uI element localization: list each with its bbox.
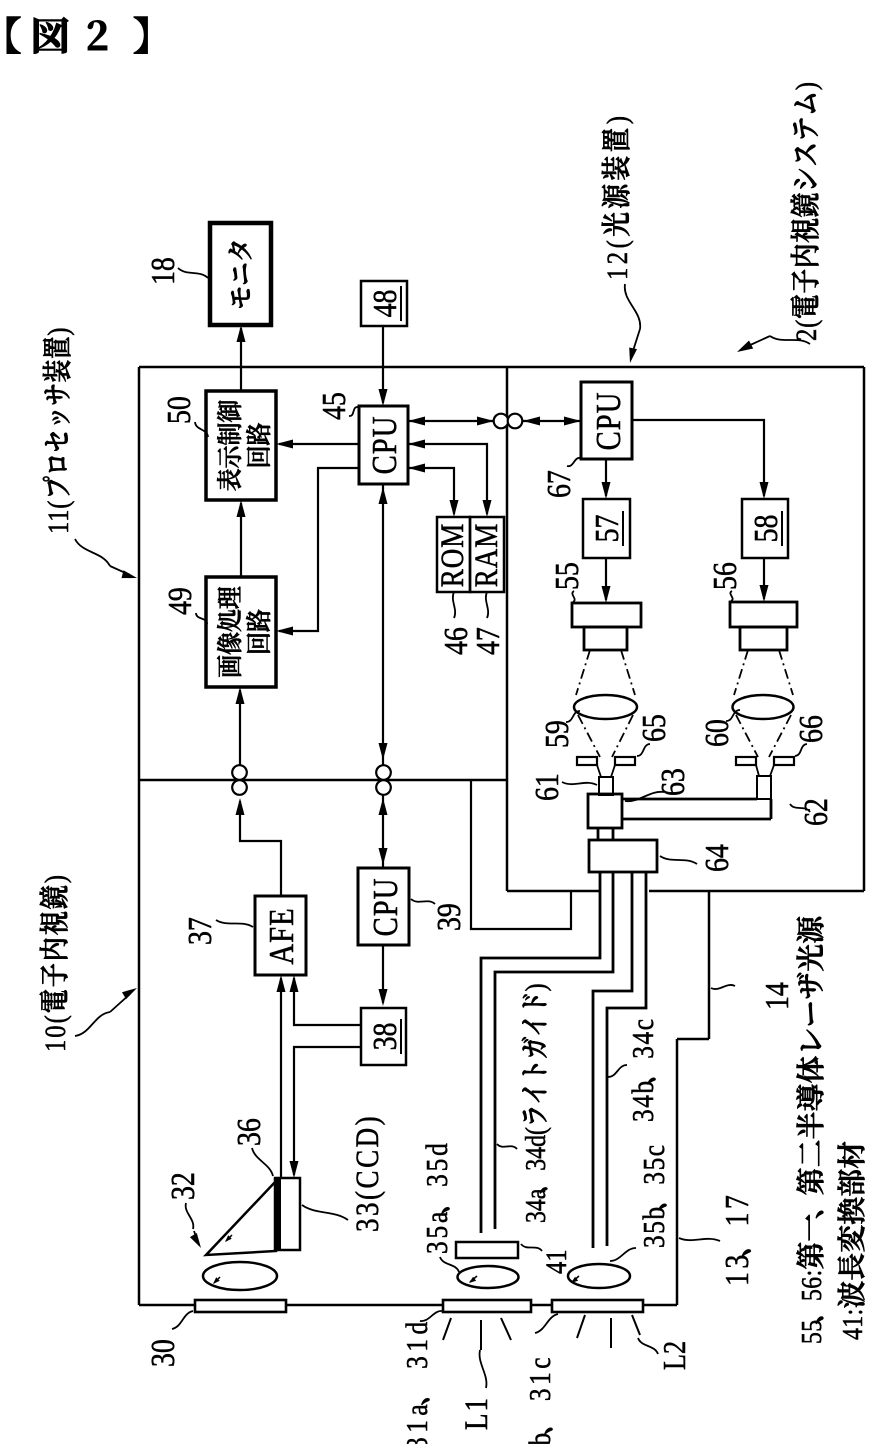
wire: light guide 34b wall from 64	[593, 872, 632, 1248]
svg-text:35d: 35d	[421, 1140, 455, 1187]
wire: light guide 34a outer wall from 64	[481, 872, 600, 1233]
svg-text:49: 49	[160, 587, 198, 615]
wire: light guide 34c wall from 64	[607, 872, 646, 1246]
svg-text:31a: 31a	[401, 1400, 435, 1444]
svg-text:34b: 34b	[627, 1079, 661, 1122]
mark inside objective lens	[214, 1277, 220, 1283]
wire: endoscope signal wire to light source	[471, 781, 571, 929]
svg-text:35a: 35a	[421, 1209, 455, 1254]
component: fiber ferrule right	[757, 776, 771, 799]
svg-text:30: 30	[143, 1339, 181, 1367]
block: monitor 18 (モニタ)	[210, 223, 271, 325]
svg-text:CPU: CPU	[365, 878, 404, 937]
block: RAM 47	[470, 517, 504, 592]
wire: image processing 49 to display control 50 with arrow	[240, 503, 242, 577]
wire: AFE to connector circles with arrow	[240, 801, 281, 896]
wire: light guide 34d inner wall from 64	[495, 872, 613, 1229]
beam: lens 60 converging dashed	[736, 715, 758, 757]
svg-text:35b: 35b	[638, 1205, 672, 1248]
svg-text:12(: 12(	[601, 237, 634, 280]
block: combiner 63	[588, 794, 622, 828]
svg-text:48: 48	[365, 290, 403, 318]
component: wavelength conversion member 41	[456, 1242, 518, 1258]
wire: endoscope 10 bottom edge	[676, 1039, 679, 1305]
svg-text:60: 60	[697, 719, 735, 747]
svg-text:39: 39	[429, 903, 467, 931]
component: prism 36	[206, 1181, 276, 1255]
svg-text:): )	[601, 113, 634, 125]
rays L2	[577, 1315, 585, 1338]
svg-text:): )	[519, 983, 552, 991]
svg-text:35c: 35c	[638, 1143, 672, 1184]
block: reference input 48	[361, 281, 407, 326]
svg-text:55: 55	[795, 1319, 828, 1344]
svg-text:64: 64	[697, 844, 735, 872]
wire: long top edge of endoscope 10 + processor 11 (portrait left edge)	[138, 367, 141, 1305]
block: second semiconductor laser 56 body	[730, 602, 797, 627]
beam: lens 59 converging dashed	[578, 715, 600, 757]
block: CPU 67	[581, 382, 632, 459]
svg-text:45: 45	[314, 392, 352, 420]
wire: CCD to AFE with arrow	[280, 978, 282, 1178]
svg-text:14: 14	[757, 982, 795, 1010]
wire: endoscope 10 left (distal) edge	[139, 1304, 677, 1307]
svg-text:ROM: ROM	[433, 523, 470, 588]
svg-text:RAM: RAM	[467, 523, 504, 588]
svg-text:66: 66	[791, 715, 829, 743]
mark inside illumination lens 2	[572, 1276, 579, 1282]
wire: light source 12 right edge	[863, 367, 866, 891]
svg-text:36: 36	[229, 1118, 267, 1146]
node: connector circles on CPU39-CPU45 line	[376, 765, 391, 780]
node: connector circles on image line	[232, 765, 247, 780]
wire: CPU 45 to display control 50 with arrow	[279, 443, 359, 445]
block: AFE 37	[255, 896, 306, 975]
wire: universal cord 14 outline step	[677, 1038, 709, 1041]
svg-text:13: 13	[717, 1251, 755, 1286]
mark inside illumination lens 1	[470, 1276, 477, 1282]
component: aperture bar 66 (two segments)	[736, 757, 756, 765]
wire: box 48 to CPU 45 with arrow	[382, 326, 384, 403]
beam: bar 66 to fiber end	[756, 765, 759, 776]
window: observation window 30	[195, 1300, 286, 1312]
wire: CPU 67 to driver 57 with arrow	[605, 459, 607, 496]
rays L1	[443, 1318, 451, 1340]
svg-text:): )	[42, 327, 75, 336]
svg-text:18: 18	[143, 257, 181, 285]
block: laser 55 neck	[584, 627, 627, 650]
svg-text:65: 65	[634, 714, 672, 742]
svg-text:50: 50	[159, 396, 197, 424]
block: laser driver 58	[742, 499, 788, 558]
block: CCD 33 with sensor face	[275, 1178, 300, 1250]
svg-text:31c: 31c	[524, 1354, 558, 1401]
block: laser driver 57	[583, 499, 630, 558]
svg-text:33(CCD): 33(CCD)	[348, 1114, 385, 1232]
component: fiber ferrule 61	[599, 777, 613, 795]
wire: display control to monitor with arrow	[240, 328, 242, 391]
wire: CPU 67 to driver 58 L-wire with arrow	[632, 420, 764, 496]
block: connector block 64	[589, 840, 657, 872]
wire: light source 12 bottom edge segments	[507, 890, 600, 893]
svg-text:): )	[39, 873, 72, 883]
block: laser 56 neck	[740, 627, 787, 650]
lens: illumination lens 2	[568, 1264, 630, 1288]
svg-text:38: 38	[365, 1023, 403, 1051]
component: aperture bar 65 (two segments)	[577, 757, 597, 765]
svg-text:55: 55	[547, 562, 585, 590]
svg-text:58: 58	[746, 515, 784, 543]
lens: condenser 60	[733, 695, 794, 719]
svg-text:31b: 31b	[524, 1429, 558, 1444]
svg-text:CPU: CPU	[588, 392, 627, 451]
svg-text:67: 67	[539, 470, 577, 498]
svg-text:17: 17	[717, 1192, 755, 1227]
block: first semiconductor laser 55 body	[572, 603, 641, 627]
wire: image line circles to image processing 49 with arrow	[239, 690, 241, 765]
wire: CPU 45 to RAM with arrows	[408, 444, 487, 514]
block: ROM 46	[437, 517, 470, 592]
svg-text:62: 62	[796, 798, 834, 826]
svg-text:59: 59	[537, 720, 575, 748]
svg-text:41:: 41:	[836, 1308, 869, 1340]
beam: laser 56 diverging dash-dot	[734, 650, 748, 695]
svg-text:34a: 34a	[519, 1188, 552, 1223]
duct: combiner 63 to connector 64	[597, 828, 600, 840]
beam: laser 55 diverging dash-dot	[576, 650, 590, 695]
wire: CPU 45 to ROM with arrows	[408, 468, 454, 514]
svg-text:L2: L2	[658, 1341, 693, 1370]
duct: light guide 62 walls	[622, 798, 757, 801]
svg-text:11(: 11(	[42, 500, 75, 534]
window: illumination window 31b/31c	[552, 1300, 643, 1312]
wire: enclosure outline - top edge (shared right edge of processor 11 and light source 12)	[139, 366, 864, 369]
svg-text:61: 61	[527, 773, 565, 801]
svg-text:56:: 56:	[795, 1269, 828, 1301]
svg-text:CPU: CPU	[364, 416, 403, 475]
svg-text:56: 56	[705, 562, 743, 590]
lens: condenser 59	[574, 695, 637, 719]
lens: illumination lens 1	[458, 1266, 519, 1288]
svg-text:57: 57	[587, 515, 625, 543]
block: CPU 39	[358, 868, 409, 945]
svg-text:10(: 10(	[39, 1013, 72, 1052]
svg-text:47: 47	[468, 627, 506, 655]
block: display control circuit 50 (表示制御回路)	[206, 391, 276, 500]
svg-text:L1: L1	[457, 1396, 494, 1430]
mark inside prism	[226, 1235, 232, 1241]
beam: bar 65 to fiber end 61	[597, 765, 601, 777]
wire: 38 to CCD L-wire with arrow	[294, 1047, 361, 1175]
svg-text:32: 32	[163, 1172, 201, 1200]
wire: CPU 45 to image processing 49 L-wire with arrow	[279, 468, 359, 631]
svg-text:37: 37	[180, 917, 218, 945]
wire: 38 to AFE L-wire with arrow	[294, 978, 361, 1025]
svg-text:41: 41	[540, 1249, 573, 1274]
svg-text:): )	[790, 81, 823, 90]
svg-text:AFE: AFE	[261, 907, 300, 964]
block: CPU 45	[359, 406, 408, 484]
svg-text:34d(: 34d(	[519, 1127, 552, 1171]
wire: boundary between processor 11 and endoscope 10	[139, 779, 507, 782]
wire: CPU 45 to CPU 67 via connector with arrows	[408, 420, 581, 422]
wire: driver 57 to laser 55 with arrow	[605, 558, 607, 600]
wire: driver 58 to laser 56 with arrow	[763, 558, 765, 599]
wire: CPU 39 to timing generator 38 with arrow	[382, 945, 384, 1003]
block: image processing circuit 49 (画像処理回路)	[206, 577, 276, 687]
block: timing generator 38	[361, 1008, 406, 1065]
wire: light source 12 left edge (portrait) = bottom boundary	[506, 367, 509, 891]
svg-text:31d: 31d	[401, 1317, 435, 1369]
node: connector circles on CPU45-CPU67 line	[494, 414, 509, 429]
lens: objective lens 30/32	[203, 1262, 277, 1290]
window: illumination window 31a/31d	[443, 1300, 531, 1312]
svg-text:34c: 34c	[627, 1018, 661, 1059]
wire: connector line to CPU 39 / CPU 45 with arrows	[382, 484, 384, 868]
svg-text:2(: 2(	[790, 319, 823, 341]
figure title 【図 2】	[7, 17, 147, 54]
